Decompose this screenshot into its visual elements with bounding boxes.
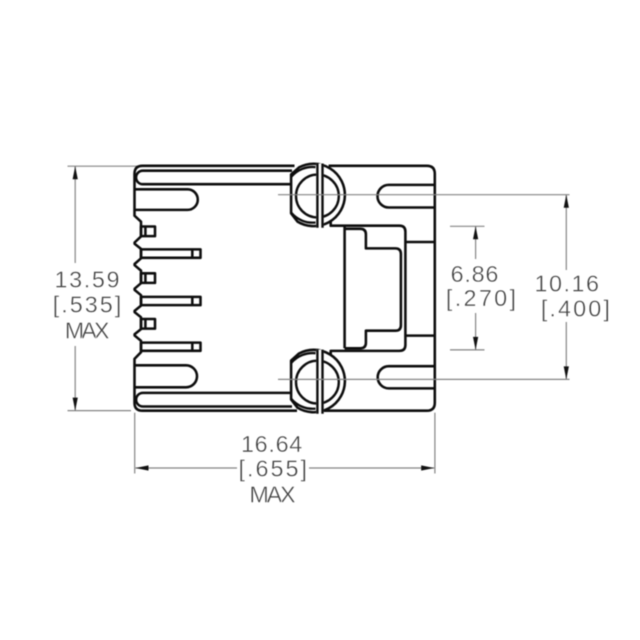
screw bottom: head circle <box>296 361 339 404</box>
screw boss top: outer flat-sided circle <box>291 164 345 228</box>
contact pin 1 <box>141 249 201 257</box>
svg-text:MAX: MAX <box>65 317 110 343</box>
connector body white fill (no stroke) <box>135 166 435 411</box>
arrowhead 13.59 up <box>73 166 569 470</box>
extension line 13.59 bottom <box>68 410 132 412</box>
body outline: top edge left segment, left side with teeth, bottom edge left segment <box>135 166 298 411</box>
screw top: chamfer crescent upper arc <box>291 167 315 177</box>
contact pin 2 <box>141 297 201 305</box>
extension line 10.16 bottom (screw centerline, drawn over part) <box>278 378 570 380</box>
body outline: top edge right segment, right side, bottom edge right segment <box>324 166 435 411</box>
arrowhead 6.86 up <box>473 226 478 239</box>
svg-text:16.64: 16.64 <box>241 431 303 457</box>
screw bottom: chamfer crescent lower arc <box>291 399 315 409</box>
svg-text:MAX: MAX <box>249 481 296 507</box>
screw boss bottom <box>291 350 345 414</box>
extension line 13.59 top <box>68 166 567 473</box>
arrowhead 16.64 right <box>421 465 434 470</box>
extension line 6.86 bottom <box>450 349 485 351</box>
svg-text:[.270]: [.270] <box>446 285 518 311</box>
dimension line 10.16 <box>565 195 567 270</box>
svg-text:10.16: 10.16 <box>534 270 600 296</box>
svg-text:6.86: 6.86 <box>451 261 500 287</box>
contact pin 3 <box>141 343 201 351</box>
latch block inner contour <box>345 229 401 348</box>
arrowhead 16.64 left <box>136 465 149 470</box>
screw top: slot <box>316 164 323 228</box>
top-right slot <box>378 185 435 208</box>
svg-text:[.400]: [.400] <box>541 296 612 322</box>
svg-text:[.535]: [.535] <box>53 291 124 317</box>
contact tab 3 <box>141 319 155 329</box>
extension line 6.86 top <box>450 225 485 227</box>
arrowhead 6.86 down <box>473 337 478 350</box>
svg-text:[.655]: [.655] <box>239 455 310 481</box>
screw bottom: slot <box>316 350 323 414</box>
arrowhead 10.16 up <box>564 195 569 208</box>
screw top: chamfer crescent lower arc <box>291 213 315 223</box>
top-left slot <box>135 189 198 210</box>
dimension line 6.86 <box>475 226 477 259</box>
bottom-right slot <box>378 366 435 388</box>
dimension line 13.59 <box>74 166 76 263</box>
top wall inner strip (rounded left end) <box>136 171 292 185</box>
arrowhead 10.16 down <box>564 366 569 379</box>
bottom wall inner strip (rounded left end) <box>136 393 292 407</box>
svg-text:13.59: 13.59 <box>55 267 122 293</box>
arrowhead 13.59 down <box>73 398 78 411</box>
contact tab 2 <box>141 273 155 283</box>
contact tab 1 <box>141 227 155 237</box>
extension line 16.64 right <box>434 413 436 474</box>
screw top: head circle <box>296 175 339 218</box>
extension line 10.16 top (screw centerline, drawn over part) <box>278 195 570 380</box>
dimension line 16.64 <box>136 467 238 469</box>
latch block left edge <box>343 226 346 349</box>
dimension text 13.59 [.535] MAX <box>53 261 612 508</box>
extension line 16.64 left <box>134 413 136 474</box>
screw bottom: chamfer crescent upper arc <box>291 353 315 363</box>
latch block outer <box>331 222 434 356</box>
bottom-left slot <box>135 365 198 387</box>
stub latch to right wall (bottom) <box>405 334 433 337</box>
stub latch to right wall (top) <box>405 241 433 244</box>
